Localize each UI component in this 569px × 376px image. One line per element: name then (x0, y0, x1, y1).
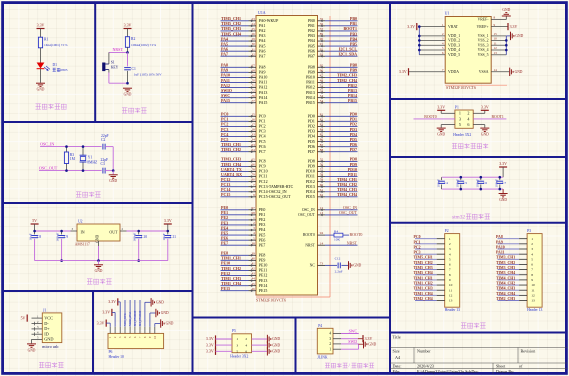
LED D1 (37, 63, 45, 69)
svg-text:C6: C6 (483, 181, 487, 185)
power flag 3.3V P6 pin1 (106, 320, 107, 327)
wire P5 right row 1 (252, 338, 267, 340)
wire bottom rail (35, 260, 168, 262)
ground P5.4 (267, 341, 268, 349)
power flag 3.3V P6 pin3 (117, 298, 118, 305)
ground (LED) (36, 83, 45, 84)
MCU right pin group 4 (306, 157, 358, 199)
wire decoupling top rail (442, 176, 504, 178)
svg-text:1: 1 (236, 337, 238, 341)
svg-text:TIM5_CH2: TIM5_CH2 (414, 261, 433, 265)
svg-text:PA7: PA7 (259, 53, 266, 58)
svg-text:3.3V: 3.3V (407, 24, 415, 29)
wire OSC_IN rail (40, 146, 102, 148)
ground P6 pin10 (154, 324, 156, 327)
wire P5 right row 3 (252, 350, 267, 352)
svg-text:C7: C7 (502, 181, 506, 185)
svg-text:TIM2_CH3: TIM2_CH3 (496, 297, 515, 301)
svg-text:1KΩ(1001) ±1%: 1KΩ(1001) ±1% (44, 43, 68, 47)
svg-text:VDD_4: VDD_4 (448, 48, 460, 52)
svg-text:TIM5_CH4: TIM5_CH4 (414, 271, 433, 275)
wire bottom joining (109, 82, 128, 84)
svg-text:TIM3_CH1: TIM3_CH1 (496, 256, 515, 260)
svg-text:5: 5 (236, 350, 238, 354)
pin VREF+ wire (491, 26, 507, 28)
wire OSC_OUT rail (39, 170, 102, 172)
title 复位电路 (122, 108, 147, 113)
svg-text:TIM4_CH4: TIM4_CH4 (337, 192, 357, 197)
svg-text:3.3V: 3.3V (206, 336, 214, 341)
svg-text:PC3: PC3 (414, 251, 421, 255)
power flag 3.3V (jlink) (341, 338, 358, 340)
svg-text:VDD_3V3: VDD_3V3 (128, 312, 132, 326)
svg-text:5: 5 (531, 257, 533, 261)
wire P1.3 BOOT0 (414, 118, 455, 120)
svg-text:TIM1_CH2: TIM1_CH2 (414, 281, 433, 285)
svg-text:100nF: 100nF (436, 179, 440, 188)
svg-text:R4: R4 (334, 229, 338, 233)
wire node NRST horizontal (109, 51, 128, 53)
pin stub U2.2 (120, 230, 127, 232)
ground (LDO) (94, 264, 103, 265)
svg-text:P3: P3 (527, 229, 531, 233)
header P6 box (108, 333, 164, 348)
power flag 3.3V P6 pin2 (111, 309, 112, 316)
ground (P1 right) (480, 128, 489, 129)
svg-text:TIM3_CH2: TIM3_CH2 (221, 147, 241, 152)
svg-text:3.3V: 3.3V (437, 104, 445, 109)
power flag 3.3V (VBAT) (416, 23, 417, 30)
svg-text:3: 3 (329, 337, 331, 341)
svg-text:10: 10 (531, 283, 535, 287)
svg-text:GND: GND (161, 311, 169, 315)
wire R2 to node NRST (127, 47, 129, 52)
svg-text:C2: C2 (101, 138, 105, 142)
header P5 box (232, 334, 252, 353)
wire C1 to bottom junction (127, 71, 129, 83)
wire caps common vertical (112, 147, 114, 171)
svg-text:X1_PWR33: X1_PWR33 (133, 310, 137, 326)
svg-text:NRST: NRST (347, 241, 358, 246)
svg-text:PC7: PC7 (259, 149, 266, 154)
power flag 3.3V (LED branch) (37, 28, 45, 29)
svg-text:3.3V: 3.3V (365, 336, 373, 341)
svg-text:6: 6 (449, 263, 451, 267)
svg-text:3.3V: 3.3V (481, 104, 489, 109)
svg-text:C8: C8 (37, 235, 41, 239)
svg-text:GND: GND (124, 93, 132, 97)
svg-text:VDD_1: VDD_1 (448, 34, 460, 38)
svg-text:2: 2 (449, 242, 451, 246)
svg-text:TIM2_CH4: TIM2_CH4 (414, 297, 433, 301)
wire VSS bus vertical (505, 36, 507, 55)
power flag 3.3V (P1 right) (481, 110, 489, 111)
svg-text:10KΩ(1002) ±1%: 10KΩ(1002) ±1% (131, 43, 156, 47)
wire VSS to ground (506, 35, 510, 37)
svg-text:6: 6 (245, 350, 247, 354)
wire left branch to S1 (108, 52, 110, 61)
svg-text:VREF+: VREF+ (477, 25, 489, 29)
svg-text:D1: D1 (53, 63, 58, 67)
wire D1 to GND (40, 69, 42, 83)
MCU pin OSC_IN (318, 209, 326, 211)
wire P1.4 BOOT1 (473, 118, 506, 120)
net labels P6 pins 4-7 (rotated) (123, 300, 142, 327)
ground P6 pin9 (149, 313, 151, 327)
svg-text:Title: Title (393, 335, 401, 340)
svg-text:GND: GND (272, 337, 280, 341)
header P2 box (445, 234, 460, 308)
svg-text:U1: U1 (445, 11, 450, 16)
switch S1 KEY (102, 63, 105, 72)
svg-text:GND: GND (272, 350, 280, 354)
svg-text:TIM1_CH4: TIM1_CH4 (414, 292, 433, 296)
ground (decoupling) (499, 193, 508, 194)
svg-text:E:\ADump32\stm32\stm32u.SchDoc: E:\ADump32\stm32\stm32u.SchDoc (417, 369, 478, 374)
svg-text:PD15: PD15 (306, 194, 315, 199)
svg-text:PE7: PE7 (221, 241, 228, 246)
svg-text:STM32F103VCT6: STM32F103VCT6 (446, 85, 476, 90)
svg-text:3: 3 (531, 247, 533, 251)
ground (reset) (123, 88, 132, 89)
wire GND J1 (31, 339, 33, 343)
capacitor C1 (124, 67, 131, 69)
svg-text:1: 1 (531, 237, 533, 241)
svg-text:3.3V: 3.3V (108, 299, 116, 304)
svg-text:100nF: 100nF (133, 233, 137, 242)
wire P5 right row 2 (252, 344, 267, 346)
wire P1.1 to 3.3V (441, 112, 455, 114)
svg-text:PC2: PC2 (414, 245, 421, 249)
MCU pin BOOT0 + resistor R4 (318, 234, 326, 236)
svg-text:P5: P5 (232, 329, 236, 333)
svg-text:GND: GND (272, 343, 280, 347)
svg-text:TIM3_CH3: TIM3_CH3 (496, 266, 515, 270)
resistor R2 (125, 37, 129, 48)
power flag 3.3V (reset) (124, 28, 132, 29)
wire P1.6 to GND (473, 124, 485, 126)
MCU left pin group 6 (221, 251, 268, 293)
power flag 3.3V P5.1 (215, 335, 216, 342)
wire 3.3V to R2 (127, 29, 129, 37)
svg-text:4: 4 (531, 252, 533, 256)
svg-text:2: 2 (245, 337, 247, 341)
power flag 5V (31, 223, 39, 224)
svg-text:GND: GND (44, 337, 53, 342)
svg-text:15: 15 (494, 32, 498, 36)
pins P2 1-13 (414, 235, 453, 303)
svg-text:KEY: KEY (111, 65, 119, 69)
svg-text:GND: GND (156, 301, 164, 305)
svg-text:Number: Number (417, 349, 431, 354)
MCU pin NC + capacitor C12 (318, 264, 326, 266)
svg-text:94: 94 (320, 231, 324, 235)
svg-text:BOOT0: BOOT0 (303, 233, 315, 237)
svg-text:12: 12 (531, 293, 535, 297)
capacitor C7 (499, 177, 501, 180)
svg-text:4: 4 (245, 343, 247, 347)
svg-text:2: 2 (467, 111, 469, 116)
ground (VSS) (510, 32, 511, 40)
svg-text:1: 1 (449, 237, 451, 241)
svg-text:C5: C5 (463, 181, 467, 185)
svg-text:10K: 10K (334, 237, 340, 241)
ground P5.2 (267, 335, 268, 343)
svg-text:PA7: PA7 (221, 52, 228, 57)
svg-text:PA15: PA15 (221, 98, 230, 103)
svg-text:GND: GND (95, 269, 103, 273)
svg-text:TIM1_CH1: TIM1_CH1 (414, 276, 433, 280)
ground P5.6 (267, 347, 268, 355)
wire P1.2 to 3.3V (473, 112, 485, 114)
MCU left pin group 5 (221, 205, 266, 247)
svg-text:TIM5_CH1: TIM5_CH1 (414, 256, 433, 260)
svg-text:100nF: 100nF (476, 179, 480, 188)
svg-text:P6: P6 (109, 350, 113, 354)
svg-text:VDD_3: VDD_3 (448, 43, 460, 47)
svg-text:10uF: 10uF (29, 233, 33, 240)
svg-text:8: 8 (449, 273, 451, 277)
svg-text:stm32: stm32 (452, 215, 465, 221)
svg-text:PD7: PD7 (308, 149, 315, 154)
svg-text:NRST: NRST (305, 243, 315, 247)
svg-text:PA11: PA11 (496, 251, 505, 255)
svg-text:TIM1_CH3: TIM1_CH3 (414, 287, 433, 291)
svg-text:4: 4 (449, 252, 451, 256)
svg-text:9: 9 (449, 278, 451, 282)
wire R1 to D1 (40, 48, 42, 63)
wire P1.5 to GND (441, 124, 455, 126)
svg-text:PA15: PA15 (259, 100, 268, 105)
svg-text:J1: J1 (43, 308, 46, 312)
svg-text:AMS1117: AMS1117 (75, 242, 90, 246)
svg-text:9: 9 (531, 278, 533, 282)
svg-text:100nF: 100nF (495, 179, 499, 188)
pin numbers P6 1-10 (108, 335, 157, 339)
svg-text:5V: 5V (32, 218, 37, 223)
svg-text:PA8: PA8 (496, 235, 503, 239)
capacitor C10 (138, 231, 140, 234)
wire S1 to bottom (108, 73, 110, 84)
svg-text:P2: P2 (445, 229, 449, 233)
title 降压电路 (87, 279, 112, 284)
power flag 3.3V P5.3 (215, 342, 216, 349)
pin VDDA wire (409, 71, 446, 73)
svg-text:GND: GND (368, 342, 376, 346)
svg-text:TIM3_CH4: TIM3_CH4 (496, 271, 515, 275)
MCU right pin group 1 (308, 16, 357, 58)
ground (P1 left) (437, 128, 446, 129)
svg-text:Header 3X2: Header 3X2 (230, 354, 248, 358)
svg-text:PE15: PE15 (259, 288, 268, 293)
svg-text:13: 13 (531, 299, 535, 303)
svg-text:OSC_IN: OSC_IN (40, 141, 54, 146)
svg-text:12: 12 (449, 293, 453, 297)
svg-text:5: 5 (459, 122, 461, 127)
svg-text:R1: R1 (44, 38, 48, 42)
svg-text:Header 13: Header 13 (445, 308, 460, 312)
svg-text:U1A: U1A (258, 10, 266, 15)
ground (usb) (27, 343, 36, 344)
capacitor C8 (34, 231, 36, 234)
svg-text:10: 10 (494, 37, 498, 41)
svg-text:GND: GND (437, 133, 445, 137)
svg-text:6: 6 (531, 263, 533, 267)
MCU left pin group 3 (221, 112, 266, 154)
svg-text:5V: 5V (21, 315, 26, 320)
wire C1 branch (127, 52, 129, 66)
svg-text:14: 14 (320, 241, 324, 245)
svg-text:PC0: PC0 (414, 235, 421, 239)
svg-text:13: 13 (449, 299, 453, 303)
svg-text:TIM4_CH2: TIM4_CH2 (496, 281, 515, 285)
svg-text:3.3V: 3.3V (206, 349, 214, 354)
svg-text:NC: NC (310, 264, 316, 268)
title block (390, 348, 567, 375)
svg-text:TIM5_CH3: TIM5_CH3 (414, 266, 433, 270)
pin stubs P6 (110, 327, 155, 334)
power flag 3.3V (VREF+) (507, 23, 508, 30)
svg-text:11: 11 (449, 288, 453, 292)
wire 3.3V down (167, 224, 169, 231)
svg-text:GND: GND (502, 8, 510, 12)
svg-text:VCC: VCC (44, 315, 53, 320)
svg-text:10: 10 (153, 335, 157, 339)
svg-text:P1: P1 (455, 106, 459, 110)
svg-text:Revision: Revision (521, 349, 537, 354)
svg-text:R2: R2 (131, 37, 135, 41)
svg-text:OSC_OUT: OSC_OUT (339, 210, 358, 215)
svg-text:3.3V: 3.3V (510, 24, 518, 29)
wire to ground (112, 171, 114, 175)
svg-text:PB15: PB15 (348, 98, 357, 103)
svg-text:SWC: SWC (349, 328, 358, 333)
svg-text:D+: D+ (44, 326, 50, 331)
crystal Y1 (82, 147, 84, 156)
svg-text:VDD_2: VDD_2 (448, 39, 460, 43)
red compile mask lines (329, 16, 331, 297)
svg-text:PE15: PE15 (221, 286, 230, 291)
svg-text:BOOT1: BOOT1 (492, 115, 504, 119)
svg-text:3.3V: 3.3V (399, 69, 407, 74)
connector P4 JLINK (317, 328, 333, 354)
svg-text:JLINK: JLINK (317, 355, 328, 359)
svg-text:PA10: PA10 (496, 245, 505, 249)
U1 VSS wires + numbers (491, 32, 506, 55)
svg-text:GND: GND (481, 133, 489, 137)
MCU U1A box (256, 16, 318, 296)
svg-text:Size: Size (393, 349, 400, 354)
title 引脚引出 (461, 323, 486, 328)
svg-text:VSSA: VSSA (479, 70, 489, 74)
svg-text:SWD: SWD (348, 339, 357, 344)
wire VDD bus vertical (418, 27, 420, 55)
svg-text:3: 3 (459, 116, 461, 121)
wire U2 gnd down (98, 246, 100, 261)
svg-text:IN: IN (81, 230, 85, 235)
svg-text:GND: GND (37, 88, 45, 92)
svg-text:OUT: OUT (109, 230, 118, 235)
MCU pin OSC_OUT (318, 214, 326, 216)
resistor R1 (38, 37, 42, 48)
svg-text:13: 13 (494, 51, 498, 55)
capacitor C3 (102, 168, 104, 174)
MCU left pin group 1 (221, 16, 280, 58)
svg-text:3: 3 (449, 247, 451, 251)
net label SWD (341, 343, 359, 345)
header P3 box (527, 234, 542, 308)
power flag 5V (usb) (27, 315, 28, 322)
MCU right pin group 3 (308, 112, 358, 154)
wire to ground (decoupling) (502, 189, 504, 193)
wire 5V down (34, 224, 36, 231)
ground (crystal) (109, 174, 118, 175)
svg-text:3.3V: 3.3V (499, 161, 507, 166)
svg-text:GND: GND (353, 264, 361, 268)
svg-text:VDD_5: VDD_5 (448, 53, 460, 57)
svg-text:C4: C4 (444, 181, 448, 185)
svg-text:OSC_OUT: OSC_OUT (298, 213, 315, 217)
capacitor C9 (61, 231, 63, 234)
svg-text:73: 73 (320, 262, 324, 266)
svg-text:D-: D- (44, 321, 49, 326)
title 晶振电路 (76, 192, 101, 197)
svg-text:100nF: 100nF (56, 233, 60, 242)
regulator U2 AMS1117 (77, 224, 120, 241)
svg-text:C10: C10 (141, 235, 147, 239)
ground (VREF-) (502, 16, 511, 17)
svg-text:3: 3 (236, 343, 238, 347)
svg-text:VSS_5: VSS_5 (478, 53, 489, 57)
capacitor C11 (167, 231, 169, 234)
svg-text:2: 2 (531, 242, 533, 246)
svg-text:PE7: PE7 (259, 242, 266, 247)
svg-text:C11: C11 (170, 235, 176, 239)
MCU pin NRST (318, 244, 326, 246)
svg-text:VSS_2: VSS_2 (478, 39, 489, 43)
MCU right pin group 2 (306, 63, 357, 105)
svg-text:2.2uF: 2.2uF (335, 270, 343, 274)
svg-text:1uF (105) 10% 50V: 1uF (105) 10% 50V (134, 72, 162, 76)
svg-text:BOOT0: BOOT0 (424, 115, 436, 119)
title 程序烧录/调试接口 (325, 363, 348, 368)
ground (VSSA) (509, 68, 510, 76)
svg-text:C12: C12 (335, 257, 341, 261)
svg-text:VSS_1: VSS_1 (478, 34, 489, 38)
pin VREF- wire to GND above (491, 19, 506, 21)
svg-text:3.3V: 3.3V (37, 23, 45, 28)
svg-text:6: 6 (467, 122, 469, 127)
title 电源指示灯 (36, 104, 67, 109)
wire rail IN side (35, 230, 71, 232)
svg-text:VBAT: VBAT (448, 25, 459, 29)
svg-text:3.3V: 3.3V (206, 342, 214, 347)
svg-text:STM32F103VCT6: STM32F103VCT6 (256, 298, 286, 303)
svg-text:VSS_4: VSS_4 (478, 48, 489, 52)
svg-text:Y1: Y1 (88, 155, 93, 159)
ground (jlink) (341, 348, 359, 350)
svg-text:PB7: PB7 (308, 53, 315, 58)
wire to ground (LDO) (98, 261, 100, 265)
svg-text:5: 5 (449, 257, 451, 261)
svg-text:PD7: PD7 (350, 147, 357, 152)
svg-text:I2C1_SDA: I2C1_SDA (339, 52, 358, 57)
svg-text:10uF: 10uF (162, 233, 166, 240)
capacitor C5 (460, 177, 462, 180)
svg-text:GND: GND (499, 198, 507, 202)
svg-text:PC15: PC15 (221, 192, 230, 197)
svg-text:12: 12 (494, 46, 498, 50)
